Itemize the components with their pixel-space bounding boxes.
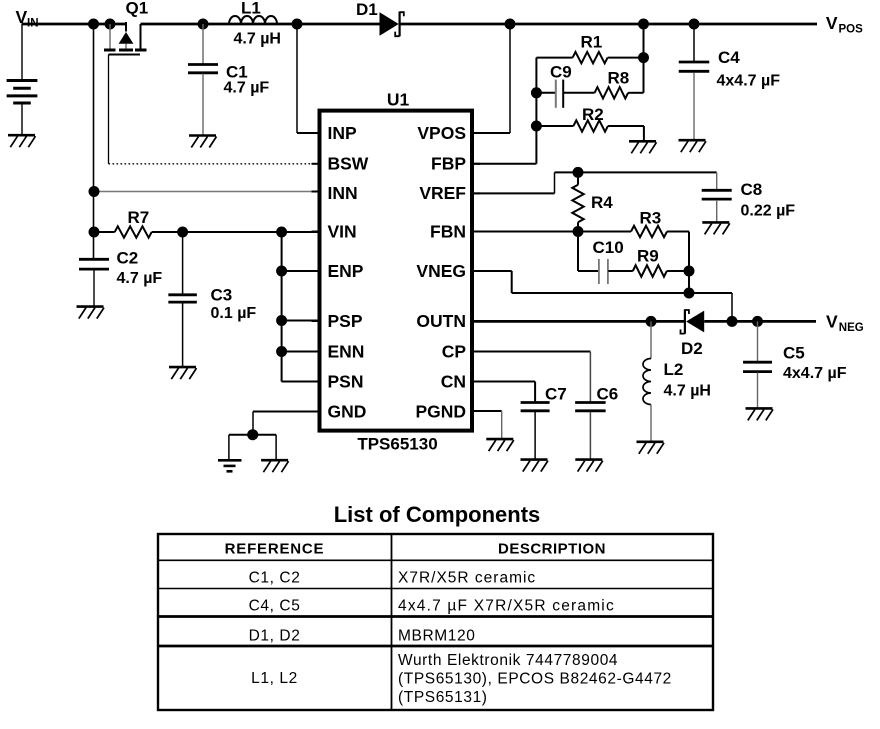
svg-text:4.7 µH: 4.7 µH [234,31,281,48]
svg-text:CP: CP [442,341,467,361]
resistor R2 [536,120,644,141]
resistor R4 [572,172,583,231]
junction dot ENP [276,266,287,277]
svg-text:L1: L1 [241,0,261,18]
junction dot FBN [573,226,584,237]
capacitor C2 [79,259,109,306]
junction dot L2 [646,316,657,327]
ground L2 [637,442,665,454]
svg-text:4.7 µF: 4.7 µF [117,270,163,287]
inductor L1 label [241,0,261,18]
capacitor C4 label [717,48,781,90]
ground R2 [629,141,657,153]
capacitor C7 label [545,385,567,404]
svg-text:VREF: VREF [419,183,466,203]
svg-text:C8: C8 [741,180,763,199]
junction dot C5 [752,316,763,327]
node VIN label [16,7,39,30]
svg-text:CN: CN [441,371,466,391]
svg-text:4.7 µH: 4.7 µH [664,383,711,400]
capacitor C8 [702,172,732,222]
capacitor C5 [743,321,772,408]
ground C2 [77,307,105,319]
capacitor C10 label [593,238,624,257]
wire PSP stub [282,320,320,322]
ground C5 [746,408,774,420]
diode D2 [681,309,705,334]
node VPOS label [826,13,863,35]
wire enable rail [281,232,283,382]
op-amp U1 part number [357,435,437,454]
svg-text:0.22 µF: 0.22 µF [741,203,796,220]
capacitor C7 [521,403,550,460]
wire VPOS pin [473,24,511,133]
wire left vertical rail [93,24,95,259]
table header REFERENCE [225,541,325,558]
transistor Q1 label [126,0,149,18]
wire OUTN pin [473,320,685,323]
ground C3 [169,367,197,379]
svg-text:Wurth Elektronik 7447789004: Wurth Elektronik 7447789004 [398,652,618,669]
junction dot R1 branch [638,19,649,30]
wire CP pin [473,352,591,403]
resistor R1 label [581,33,603,52]
svg-text:C4: C4 [718,48,740,67]
svg-text:REFERENCE: REFERENCE [225,541,325,558]
wire R3 right vertical [688,232,690,294]
table header DESCRIPTION [498,541,606,558]
inductor L1 [229,16,277,24]
wire top rail D1 to VPOS [400,23,817,26]
capacitor C6 [575,403,606,460]
svg-text:4x4.7 µF: 4x4.7 µF [717,73,781,90]
svg-text:ENP: ENP [328,261,364,281]
svg-text:R7: R7 [128,208,150,227]
svg-text:NEG: NEG [839,322,864,334]
junction dot C3 branch [177,227,188,238]
svg-text:L2: L2 [664,360,684,379]
resistor R1 [536,52,643,63]
battery V1 input source [7,24,38,135]
svg-text:INN: INN [328,183,358,203]
resistor R8 [595,87,644,98]
svg-text:4.7 µF: 4.7 µF [224,80,270,97]
svg-text:(TPS65131): (TPS65131) [398,689,488,706]
junction dot ENN [276,346,287,357]
capacitor C8 label [741,180,796,220]
ground C6 [575,460,603,472]
junction dot C9 left [531,87,542,98]
capacitor C9 label [550,63,572,82]
junction dot PSP [276,315,287,326]
table row C1 C2 [249,570,537,587]
capacitor C4 [679,24,710,140]
capacitor C6 label [597,385,619,404]
svg-text:C7: C7 [545,385,567,404]
resistor R9 label [637,247,659,266]
inductor L2 [643,321,651,441]
svg-text:X7R/X5R ceramic: X7R/X5R ceramic [398,570,536,587]
ground C4 [679,140,707,152]
inductor L2 label [664,360,711,400]
svg-text:D2: D2 [681,339,703,358]
capacitor C1 label [224,63,270,97]
svg-text:DESCRIPTION: DESCRIPTION [498,541,606,558]
wire PSN stub [282,381,320,383]
junction dot Q1 source [105,19,116,30]
svg-text:C2: C2 [117,249,139,268]
wire ENP stub [282,270,320,272]
svg-text:R8: R8 [608,69,630,88]
junction dot C4 branch [689,19,700,30]
junction dot INN [89,186,100,197]
ground C8 [702,222,730,234]
junction dot ENP rail [276,227,287,238]
junction dot R9 right [684,266,695,277]
svg-text:PSP: PSP [328,311,363,331]
svg-text:C10: C10 [593,238,624,257]
capacitor C10 [599,259,608,284]
svg-text:C1, C2: C1, C2 [249,570,301,587]
ground earth GND [218,460,242,471]
svg-text:OUTN: OUTN [416,311,466,331]
svg-text:R9: R9 [637,247,659,266]
capacitor C3 [168,232,197,367]
junction dot R2 left [531,121,542,132]
svg-text:FBP: FBP [431,154,466,174]
resistor R8 label [608,69,630,88]
op-amp U1 label [387,90,410,110]
resistor R7 [94,226,320,237]
wire R1 to top rail [643,24,645,93]
svg-text:C5: C5 [783,344,805,363]
svg-text:4x4.7 µF: 4x4.7 µF [783,365,847,382]
svg-text:PGND: PGND [415,401,466,421]
junction dot INP branch [292,19,303,30]
svg-text:C4, C5: C4, C5 [249,598,301,615]
svg-text:C3: C3 [211,286,233,305]
junction dot C1 [198,19,209,30]
svg-text:ENN: ENN [328,341,365,361]
table grid [158,534,713,710]
svg-text:C6: C6 [597,385,619,404]
capacitor C3 label [211,286,257,323]
wire ENN stub [282,351,320,353]
ground C7 [521,460,549,472]
table row D1 D2 [249,628,476,645]
svg-text:POS: POS [839,23,864,35]
inductor L1 value [234,31,281,48]
wire GND tee [229,435,276,460]
op-amp U1 pin stubs [312,133,481,412]
capacitor C2 label [117,249,163,288]
ground PGND [486,439,514,451]
resistor R2 label [582,105,604,124]
wire INP connection [297,24,320,133]
junction dot VNEG line [684,288,695,299]
svg-text:PSN: PSN [328,371,364,391]
resistor R3 label [640,209,662,228]
capacitor C5 label [783,344,847,383]
svg-text:V: V [826,311,838,331]
junction dot D2 anode [727,316,738,327]
resistor R7 label [128,208,150,227]
capacitor C9 [536,80,594,108]
svg-text:4x4.7 µF X7R/X5R ceramic: 4x4.7 µF X7R/X5R ceramic [398,598,615,615]
svg-text:R4: R4 [591,193,613,212]
svg-text:FBN: FBN [430,221,466,241]
wire D2 to VNEG [704,320,816,323]
svg-text:GND: GND [328,401,367,421]
op-amp U1 right pin labels [415,123,466,422]
resistor R4 label [591,193,613,212]
svg-text:C9: C9 [550,63,572,82]
transistor Q1 body [104,22,147,55]
ground battery [8,135,36,147]
table row C4 C5 [249,598,615,615]
svg-text:0.1 µF: 0.1 µF [211,305,257,322]
node VNEG label [826,311,864,334]
wire VNEG pin [473,271,733,321]
svg-text:TPS65130: TPS65130 [357,435,437,454]
svg-text:U1: U1 [387,90,410,110]
svg-text:D1: D1 [356,0,378,19]
op-amp U1 left pin labels [328,123,369,422]
wire CN pin [473,382,536,403]
diode D1 [380,12,404,37]
wire VREF pin [473,172,717,193]
table row L1 L2 [251,652,672,706]
op-amp U1 TPS65130 box [320,111,473,431]
ground slash GND [261,460,289,472]
junction dot R4 top [573,167,584,178]
resistor R9 [608,265,689,276]
ground C1 [189,136,217,148]
svg-text:R1: R1 [581,33,603,52]
junction dot top rail x94 [88,19,99,30]
wire FBN pin [473,231,632,233]
wire Q1 gate to BSW vertical [108,55,110,164]
diode D1 label [356,0,378,19]
svg-text:L1, L2: L1, L2 [251,670,298,687]
svg-text:V: V [826,13,838,33]
junction dot GND [247,429,258,440]
wire top rail VIN to Q1 [22,23,127,26]
junction dot VIN left [89,227,100,238]
svg-text:INP: INP [328,123,358,143]
svg-text:VIN: VIN [328,221,357,241]
wire C10 branch [578,232,599,272]
junction dot R1 right [638,52,649,63]
svg-text:MBRM120: MBRM120 [398,628,475,645]
diode D2 label [681,339,703,358]
svg-text:List of Components: List of Components [334,502,541,527]
wire FBP pin [473,58,537,164]
wire INN pin [94,191,320,193]
svg-text:(TPS65130), EPCOS B82462-G4472: (TPS65130), EPCOS B82462-G4472 [398,671,672,688]
svg-text:D1, D2: D1, D2 [249,628,301,645]
svg-text:Q1: Q1 [126,0,149,18]
svg-text:VPOS: VPOS [417,123,466,143]
table title [334,502,541,527]
svg-text:VNEG: VNEG [416,261,466,281]
capacitor C1 [188,24,218,135]
wire PGND pin [473,411,502,439]
wire top rail Q1 to D1 [141,23,380,26]
wire GND pin [253,412,320,435]
wire BSW dotted line [109,163,320,165]
svg-text:BSW: BSW [328,154,369,174]
resistor R3 [631,226,689,237]
junction dot VPOS drop [505,19,516,30]
